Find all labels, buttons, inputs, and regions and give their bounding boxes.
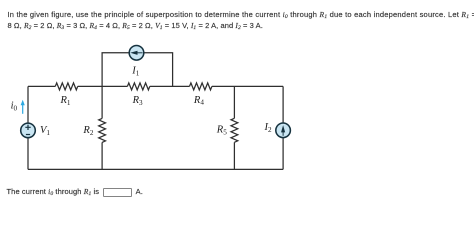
svg-text:V1: V1: [40, 125, 50, 137]
svg-text:i0: i0: [11, 100, 18, 112]
svg-text:I2: I2: [264, 122, 273, 134]
svg-text:R2: R2: [82, 125, 93, 137]
svg-text:R1: R1: [60, 95, 71, 107]
svg-text:R5: R5: [216, 125, 227, 137]
svg-text:R3: R3: [132, 95, 143, 107]
svg-text:R4: R4: [193, 95, 204, 107]
svg-text:I1: I1: [131, 65, 140, 77]
